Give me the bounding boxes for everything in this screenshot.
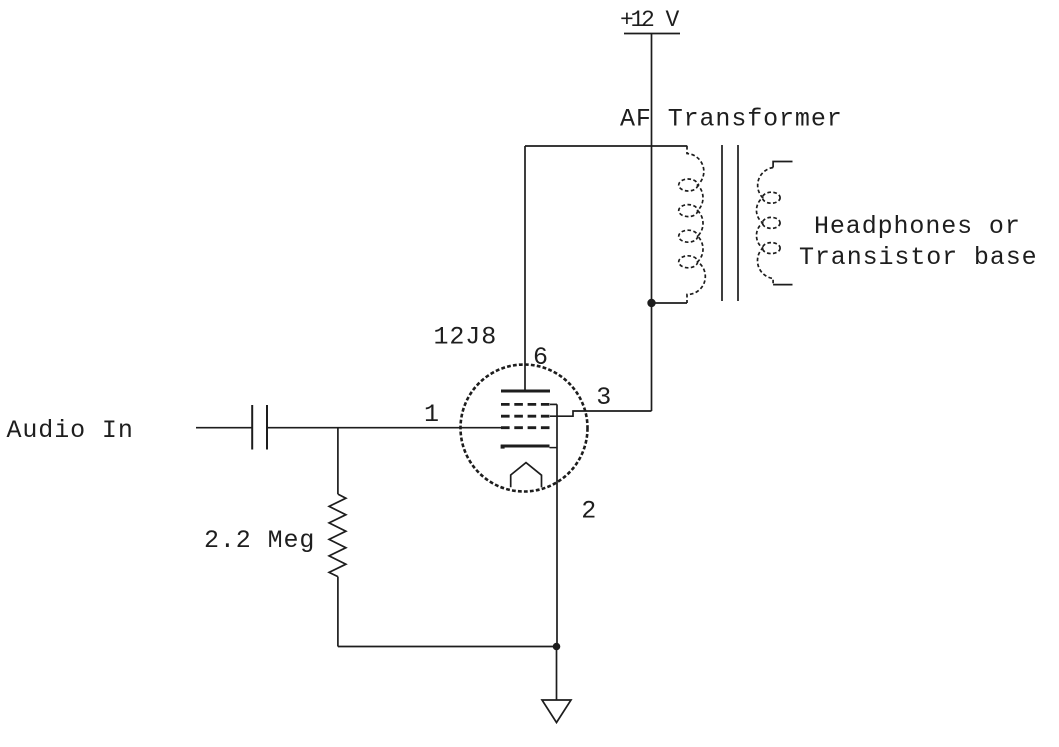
secondary top lead [773, 162, 792, 168]
svg-text:12J8: 12J8 [434, 323, 498, 352]
tube cathode [501, 445, 550, 448]
secondary bottom lead [773, 284, 792, 286]
transformer T1 secondary winding [756, 168, 780, 285]
capacitor C1 plate right [266, 405, 268, 450]
wire: grid node down to resistor [337, 428, 339, 494]
wire: grid row1 to cathode-line vertical [550, 403, 557, 405]
wire: resistor bottom [337, 577, 339, 647]
svg-text:Headphones or: Headphones or [814, 212, 1021, 241]
svg-text:2.2 Meg: 2.2 Meg [204, 526, 315, 555]
svg-text:3: 3 [596, 383, 612, 412]
wire: pin 2 vertical (row1/cathode down to ground junction) [556, 404, 558, 646]
svg-text:+12 V: +12 V [620, 7, 680, 33]
wire: primary bottom to junction [652, 302, 688, 304]
tube plate [501, 390, 550, 393]
+12V rail bar [624, 33, 680, 35]
wire: +12V vertical down to transformer junction [651, 34, 653, 304]
tube grid row 1 [501, 403, 550, 406]
svg-text:2: 2 [581, 496, 597, 525]
wire: audio input to capacitor [196, 427, 252, 429]
svg-text:Audio In: Audio In [7, 416, 134, 445]
junction: cathode / resistor / ground [553, 643, 561, 651]
wire: junction down to ground symbol [556, 647, 558, 701]
wire: capacitor to pin 1 (control grid) [267, 427, 501, 429]
wire: tube pin 6 vertical to plate [524, 146, 526, 391]
tube V1 12J8 envelope [461, 365, 588, 492]
transformer core [721, 145, 723, 301]
wire: ground return horizontal [338, 646, 557, 648]
capacitor C1 plate left [251, 405, 253, 450]
tube grid row 2 [501, 415, 550, 418]
wire: screen grid jog to pin 3 [550, 411, 652, 416]
ground symbol [542, 700, 571, 723]
resistor R1 zigzag [329, 494, 346, 576]
svg-text:6: 6 [533, 343, 549, 372]
wire: pin 3 vertical up to junction [651, 303, 653, 411]
svg-text:AF Transformer: AF Transformer [620, 104, 843, 133]
svg-text:1: 1 [424, 400, 440, 429]
wire: plate to primary top horizontal [525, 145, 687, 147]
tube filament [511, 463, 542, 488]
junction: +12V / primary bottom / screen grid node [647, 299, 655, 307]
tube grid row 3 (control grid) [501, 426, 550, 429]
transformer T1 primary winding [679, 146, 706, 303]
svg-text:Transistor base: Transistor base [799, 243, 1038, 272]
